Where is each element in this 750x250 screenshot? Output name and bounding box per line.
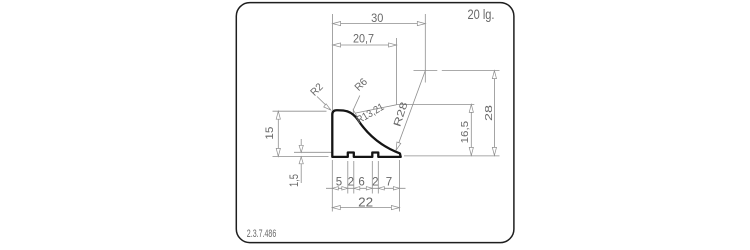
svg-text:22: 22 [358, 195, 373, 210]
svg-text:7: 7 [386, 176, 392, 188]
svg-text:20 lg.: 20 lg. [468, 6, 495, 22]
svg-text:20,7: 20,7 [353, 31, 374, 45]
svg-text:2: 2 [372, 176, 378, 188]
svg-text:28: 28 [483, 105, 495, 121]
svg-text:15: 15 [264, 127, 276, 140]
svg-text:5: 5 [336, 176, 342, 188]
svg-text:1,5: 1,5 [287, 174, 301, 187]
svg-text:6: 6 [358, 176, 364, 188]
svg-text:2: 2 [348, 176, 354, 188]
svg-text:16,5: 16,5 [459, 121, 471, 144]
svg-text:30: 30 [371, 13, 383, 25]
svg-text:2.3.7.486: 2.3.7.486 [247, 228, 276, 240]
